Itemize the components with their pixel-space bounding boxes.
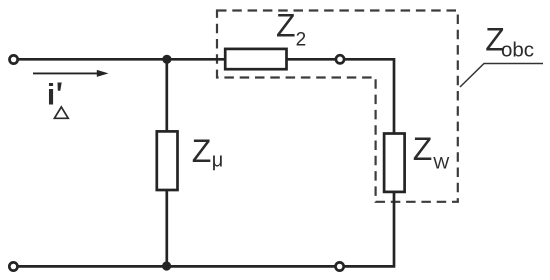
wire left branch lower (Zu to bottom junction) bbox=[165, 190, 168, 266]
terminal top-middle after Z2 bbox=[336, 55, 344, 63]
junction dot bottom bbox=[162, 261, 171, 270]
svg-text:i: i bbox=[47, 79, 55, 112]
junction dot top bbox=[162, 55, 171, 64]
svg-text:Z: Z bbox=[413, 131, 433, 167]
svg-text:μ: μ bbox=[212, 150, 224, 172]
terminal top-left bbox=[10, 55, 18, 63]
resistor Zu bbox=[157, 131, 178, 190]
label Z2 bbox=[276, 7, 306, 50]
resistor ZW bbox=[384, 134, 405, 192]
svg-text:Z: Z bbox=[276, 7, 296, 43]
wire top from Z2 to right corner and down to ZW bbox=[287, 59, 395, 133]
svg-text:Z: Z bbox=[192, 133, 212, 169]
label i prime delta bbox=[47, 79, 68, 119]
svg-text:obc: obc bbox=[501, 39, 534, 62]
label Zobc bbox=[485, 21, 534, 61]
label Zu bbox=[192, 133, 224, 172]
terminal bottom-middle bbox=[336, 262, 344, 270]
terminal bottom-left bbox=[9, 262, 17, 270]
current arrow bbox=[33, 70, 109, 77]
resistor Z2 bbox=[225, 49, 286, 69]
label ZW bbox=[413, 131, 449, 173]
wire top from left terminal to Z2 bbox=[14, 58, 226, 61]
svg-text:2: 2 bbox=[296, 30, 307, 51]
svg-text:W: W bbox=[433, 154, 449, 173]
pointer line from Zobc to dashed box bbox=[460, 64, 543, 88]
wire bottom from left terminal to right corner and up to ZW bbox=[13, 192, 394, 266]
dashed box Zobc boundary bbox=[217, 11, 458, 202]
wire left branch upper (junction to Zu) bbox=[165, 59, 168, 131]
